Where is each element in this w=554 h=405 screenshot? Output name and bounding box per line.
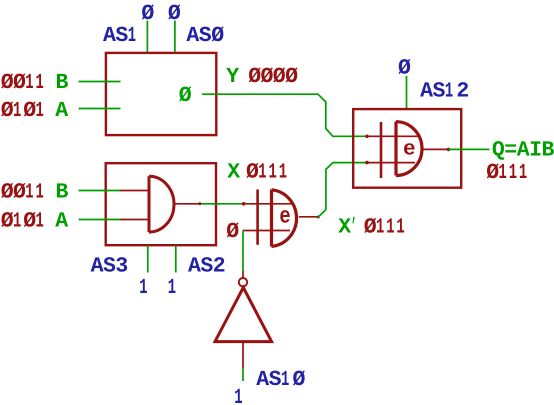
svg-text:1: 1 xyxy=(36,210,44,234)
pin AND output xyxy=(174,203,200,205)
svg-text:Ø: Ø xyxy=(13,71,26,95)
svg-text:1: 1 xyxy=(281,368,289,392)
svg-text:Y: Y xyxy=(226,65,239,89)
svg-text:2: 2 xyxy=(456,80,469,104)
svg-text:3: 3 xyxy=(115,255,128,279)
wire net X from U2 to XOR U4 xyxy=(200,203,244,205)
svg-text:1: 1 xyxy=(396,216,404,240)
wire AS1 xyxy=(146,21,148,53)
svg-text:1: 1 xyxy=(25,181,33,205)
pin U4 output xyxy=(299,216,319,218)
wire A into U2 xyxy=(79,219,120,221)
pin U3 output xyxy=(422,148,449,150)
svg-text:e: e xyxy=(403,138,416,161)
pin U4 input 2 xyxy=(243,230,290,232)
svg-text:Ø: Ø xyxy=(285,65,298,89)
svg-text:1: 1 xyxy=(499,161,507,185)
svg-text:1: 1 xyxy=(519,161,527,185)
xor gate U3 xyxy=(380,122,383,178)
junction dot X xyxy=(242,202,246,206)
svg-text:1: 1 xyxy=(13,99,21,123)
xor gate U4 xyxy=(256,190,259,245)
pin U3 input 1 xyxy=(367,135,418,137)
wire AS12 xyxy=(406,76,408,108)
svg-text:A: A xyxy=(188,255,201,279)
svg-text:A: A xyxy=(91,255,104,279)
svg-text:B: B xyxy=(56,71,69,95)
pin AND input 1 xyxy=(120,190,149,192)
svg-text:A: A xyxy=(103,24,116,48)
svg-text:S: S xyxy=(103,255,116,279)
wire from U4 lower input to inverter U5 xyxy=(242,231,244,272)
svg-text:Ø: Ø xyxy=(246,160,259,184)
junction dot U3 in1 xyxy=(365,135,369,139)
svg-text:2: 2 xyxy=(213,255,226,279)
svg-text:A: A xyxy=(55,99,68,123)
svg-text:Ø: Ø xyxy=(23,210,36,234)
svg-text:1: 1 xyxy=(139,276,147,300)
svg-text:Ø: Ø xyxy=(248,65,261,89)
svg-text:1: 1 xyxy=(445,80,453,104)
pin U4 input 1 xyxy=(244,203,293,205)
svg-text:A: A xyxy=(186,24,199,48)
wire AS3 xyxy=(147,246,149,273)
svg-text:1: 1 xyxy=(234,386,242,405)
wire AS2 xyxy=(175,246,177,273)
block U2 (AND box AS3/AS2) xyxy=(106,163,216,245)
svg-text:X: X xyxy=(338,216,351,240)
svg-text:1: 1 xyxy=(168,276,176,300)
wire AS0 xyxy=(174,21,176,53)
svg-text:Ø: Ø xyxy=(293,368,306,392)
svg-text:Ø: Ø xyxy=(486,161,499,185)
AND gate body in U2 xyxy=(149,176,174,232)
svg-text:B: B xyxy=(56,181,69,205)
svg-text:Ø: Ø xyxy=(398,57,411,81)
wire net Y from U1 to XOR U3 upper input xyxy=(202,94,367,136)
svg-text:Q: Q xyxy=(492,139,505,163)
pin U5 input xyxy=(242,342,244,368)
svg-text:Ø: Ø xyxy=(13,181,26,205)
svg-text:Ø: Ø xyxy=(1,181,14,205)
svg-text:1: 1 xyxy=(36,99,44,123)
wire B into U2 xyxy=(79,190,120,192)
wire B into U1 xyxy=(79,81,121,83)
svg-text:’: ’ xyxy=(351,216,357,240)
block U3 (XOR box AS12) xyxy=(353,109,461,188)
pin U5 output xyxy=(242,271,244,278)
svg-text:1: 1 xyxy=(269,160,277,184)
svg-text:S: S xyxy=(433,80,446,104)
svg-text:S: S xyxy=(200,255,213,279)
svg-text:X: X xyxy=(227,160,240,184)
svg-text:A: A xyxy=(420,80,433,104)
pin U3 input 2 xyxy=(367,162,415,164)
junction dot Q xyxy=(447,148,451,152)
svg-text:Ø: Ø xyxy=(273,65,286,89)
svg-text:Ø: Ø xyxy=(226,220,239,244)
svg-text:1: 1 xyxy=(509,161,517,185)
junction dot U4 output xyxy=(317,216,320,219)
svg-text:Ø: Ø xyxy=(261,65,274,89)
svg-text:1: 1 xyxy=(279,160,287,184)
wire A into U1 xyxy=(79,108,121,110)
svg-text:Ø: Ø xyxy=(179,84,192,108)
svg-text:e: e xyxy=(279,203,290,229)
inverter triangle U5 xyxy=(215,288,272,342)
svg-text:S: S xyxy=(269,368,282,392)
svg-text:I: I xyxy=(529,139,542,163)
svg-text:1: 1 xyxy=(13,210,21,234)
pin AND input 2 xyxy=(120,219,149,221)
junction dot U2 output xyxy=(198,202,201,205)
svg-text:A: A xyxy=(256,368,269,392)
svg-text:A: A xyxy=(517,139,530,163)
svg-text:Ø: Ø xyxy=(1,71,14,95)
svg-text:1: 1 xyxy=(376,216,384,240)
wire net X' from U4 to XOR U3 lower input xyxy=(318,163,367,218)
svg-text:Ø: Ø xyxy=(364,216,377,240)
wire net Q xyxy=(449,148,490,150)
junction dot U3 in2 xyxy=(365,161,369,165)
svg-text:1: 1 xyxy=(25,71,33,95)
block U1 (function box AS1/AS0) xyxy=(106,53,216,135)
svg-text:Ø: Ø xyxy=(1,99,14,123)
svg-text:1: 1 xyxy=(128,24,136,48)
svg-text:A: A xyxy=(55,210,68,234)
svg-text:Ø: Ø xyxy=(1,210,14,234)
svg-text:1: 1 xyxy=(386,216,394,240)
inverter bubble U5 xyxy=(239,278,247,286)
svg-text:S: S xyxy=(115,24,128,48)
svg-text:1: 1 xyxy=(36,181,44,205)
svg-text:=: = xyxy=(504,139,517,163)
svg-text:1: 1 xyxy=(36,71,44,95)
svg-text:Ø: Ø xyxy=(211,24,224,48)
svg-text:1: 1 xyxy=(258,160,266,184)
svg-text:S: S xyxy=(199,24,212,48)
svg-text:B: B xyxy=(542,139,554,163)
svg-text:Ø: Ø xyxy=(23,99,36,123)
wire AS10 xyxy=(242,368,244,381)
